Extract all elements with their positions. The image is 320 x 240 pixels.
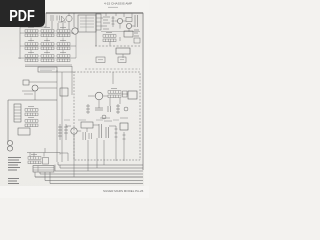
label text (100, 118, 128, 121)
resistor R5 (86, 104, 90, 114)
resistor array RA11 (25, 106, 38, 115)
capacitor C2 (134, 15, 139, 36)
IC U3 (128, 91, 137, 99)
parts list text (8, 158, 21, 171)
resistor array RA6 (57, 40, 70, 49)
wire (29, 82, 57, 100)
wire bus line 3 (60, 167, 143, 169)
transistor Q3 (117, 18, 122, 23)
IC U1 (116, 48, 130, 54)
resistor array RA3 (57, 27, 70, 36)
resistor array RA8 (41, 52, 54, 61)
inductor L8 (118, 57, 126, 63)
terminal strip TB2 (28, 154, 41, 163)
resistor array RA4 (25, 40, 38, 49)
connector pins J1 (80, 15, 94, 32)
transistor Q5 (32, 85, 38, 91)
resistor R2 (58, 124, 62, 140)
inductor L1 (81, 122, 93, 128)
transformer T2 winding (7, 146, 12, 151)
resistor array RA5 (41, 40, 54, 49)
resistor array RA9 (57, 52, 70, 61)
wire bus row 3 (18, 57, 76, 59)
wire bus line 4 (55, 170, 143, 172)
svg-text:4-15 CHASSIS AMP: 4-15 CHASSIS AMP (104, 2, 132, 6)
connector pins (14, 107, 21, 119)
IC U4 (120, 123, 128, 130)
diode D3 (123, 132, 126, 144)
transistor Q1 (66, 15, 72, 21)
wire bus line 8 (50, 183, 143, 185)
enclosure box top right (78, 15, 96, 32)
wire bus row 1 (20, 32, 74, 34)
wire bus line 5 (40, 173, 143, 175)
wire (95, 13, 97, 46)
svg-text:SILVER MARS MODEL PA-26: SILVER MARS MODEL PA-26 (103, 189, 144, 193)
transistor Q7 (71, 128, 77, 134)
wire (101, 13, 135, 46)
diode array DA1 (123, 91, 128, 97)
capacitor C3 (95, 106, 111, 112)
wire (27, 148, 68, 161)
capacitor C6 (83, 132, 92, 140)
scan area tint (0, 12, 144, 186)
IC U5 (124, 31, 133, 37)
terminal strip TB3 (43, 158, 49, 165)
label text (64, 119, 119, 121)
wire (101, 31, 140, 33)
table rows (33, 166, 54, 173)
connector strip J2 (14, 104, 21, 122)
wire stubs (35, 162, 60, 184)
capacitor C1 (51, 15, 60, 21)
transformer T2 (7, 140, 12, 145)
IC U2 (60, 88, 68, 96)
wire (88, 94, 128, 108)
wire bus line 2 (58, 164, 143, 166)
label box T1 (38, 67, 57, 72)
notes text (8, 179, 19, 184)
terminal block TB1 (18, 128, 30, 135)
resistor R7 (115, 126, 118, 142)
terminal box J3 (96, 14, 101, 30)
inductor L7 (96, 57, 105, 63)
wire dashed (95, 45, 140, 47)
wire inter-row stubs (31, 34, 76, 58)
scan shading (0, 0, 1, 1)
PDF badge (0, 0, 45, 27)
wire bus row 2 (20, 45, 76, 47)
resistor array RA1 (25, 27, 38, 36)
wire (8, 100, 57, 142)
label text SW (103, 17, 110, 29)
label text (22, 91, 34, 94)
resistor array RA10 (103, 32, 116, 41)
diode D1 (58, 16, 66, 22)
relay K2 (134, 38, 140, 43)
label text (98, 59, 124, 61)
wire (25, 65, 72, 67)
right border wire (142, 13, 144, 170)
page background (0, 0, 149, 198)
wire (20, 13, 74, 59)
capacitor C4 (99, 124, 109, 138)
wire shield dashed (85, 68, 140, 70)
resistor array RA7 (25, 52, 38, 61)
label text (40, 69, 55, 71)
title underline (108, 6, 118, 8)
transistor Q8 (102, 115, 106, 119)
resistor array RA12 (25, 117, 38, 126)
wire (122, 54, 124, 58)
wire bus line 6 (35, 176, 143, 178)
relay K1 (23, 80, 29, 85)
resistor R1 (116, 104, 120, 114)
wire (57, 66, 113, 162)
diode D2 (126, 18, 132, 22)
resistor R6 (112, 16, 115, 27)
table box (33, 166, 54, 173)
transistor Q2 (72, 28, 78, 34)
transistor Q6 (95, 92, 103, 100)
capacitor C5 (124, 107, 128, 111)
dashed enclosure box (74, 72, 140, 160)
svg-text:PDF: PDF (9, 8, 35, 26)
resistor array RA13 (108, 88, 121, 97)
wire (66, 125, 124, 177)
resistor R3 (64, 124, 68, 140)
resistor array RA2 (41, 27, 54, 36)
terminal rows (96, 18, 101, 26)
wire bus line 7 (45, 180, 143, 182)
transistor Q4 (126, 23, 131, 28)
bottom margin (0, 186, 149, 198)
top border wire (46, 12, 143, 14)
